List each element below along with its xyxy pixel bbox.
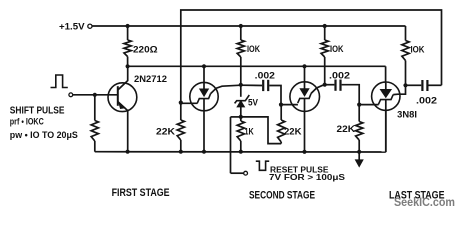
junction at 127.6,26 [126, 24, 130, 28]
svg-text:IOK: IOK [411, 45, 425, 55]
reset pulse symbol [256, 161, 269, 170]
junction at 359.2,151.8 [357, 150, 361, 154]
wire cap C2 right [342, 85, 360, 105]
wire input to base [73, 94, 118, 96]
wire R7 top [240, 117, 242, 121]
SCS Q3 anode-gate lead [311, 85, 325, 94]
svg-text:22K: 22K [156, 127, 176, 137]
wire R6 top [180, 103, 182, 120]
wire 10K R2 top [240, 26, 242, 40]
wire 10K R4 bottom [405, 61, 407, 86]
junction at 204,151.7 [202, 150, 206, 154]
wire R8 top [280, 105, 282, 120]
SCS Q2 zener bar [197, 94, 210, 104]
junction at 324.7,84.7 [323, 83, 327, 87]
junction at 359.2,104.6 [357, 103, 361, 107]
wire zener top [240, 85, 242, 97]
SCS Q2 body circle [190, 82, 218, 110]
resistor R6 22K first stage [177, 120, 184, 140]
SCS Q4 triangle [380, 89, 391, 97]
wire reset riser [230, 117, 232, 173]
svg-text:SHIFT PULSE: SHIFT PULSE [10, 105, 65, 116]
transistor Q1 base bar [117, 86, 119, 106]
wire 10K R4 top [405, 26, 407, 41]
junction at 180.8,102.6 [179, 101, 183, 105]
transistor Q1 emitter lead [118, 102, 128, 152]
wire 1K node to R8 bottom [241, 117, 281, 144]
junction at 281,104.6 [279, 103, 283, 107]
wire reset node horizontal [231, 116, 241, 118]
svg-text:7V FOR > 100μS: 7V FOR > 100μS [269, 172, 345, 182]
resistor R2 10K [237, 40, 244, 57]
svg-text:5V: 5V [248, 98, 258, 108]
wire R5 bottom [94, 141, 96, 152]
svg-text:220Ω: 220Ω [133, 44, 158, 54]
SCS Q3 cathode wire [304, 98, 306, 151]
input terminal [69, 93, 73, 97]
wire top feedback bus [181, 10, 442, 103]
svg-text:22K: 22K [284, 126, 302, 136]
wire cap C1 right [269, 86, 281, 105]
wire zener bottom [240, 107, 242, 117]
svg-text:22K: 22K [337, 124, 356, 134]
resistor R3 10K [321, 40, 328, 57]
resistor R1 220ohm [124, 40, 131, 57]
SCS Q4 anode-gate lead [393, 85, 405, 94]
wire cap C1 left [241, 84, 262, 86]
wire anode bus drop to Q4 [385, 66, 387, 83]
wire SCS Q2 anode [203, 66, 205, 89]
svg-text:.002: .002 [416, 96, 437, 106]
capacitor C2 plates [334, 80, 336, 91]
svg-text:.002: .002 [329, 71, 350, 81]
junction at 127.6,66.3 [126, 64, 130, 68]
wire ground rail [95, 151, 386, 153]
wire R6 bottom [180, 140, 182, 152]
resistor R4 10K [402, 41, 409, 61]
svg-text:prf • IOKC: prf • IOKC [10, 117, 44, 127]
SCS Q3 body circle [290, 82, 320, 112]
svg-text:IOK: IOK [247, 44, 260, 54]
junction at 127.6,151.7 [126, 150, 130, 154]
junction at 240.8,26 [239, 24, 243, 28]
junction at 180.8,151.7 [179, 150, 183, 154]
svg-text:IOK: IOK [330, 44, 344, 54]
wire cap C3 right [429, 84, 442, 86]
zener CR1 triangle [237, 101, 245, 107]
SCS Q2 cathode-gate lead [181, 102, 198, 104]
zener CR1 bar [235, 95, 250, 103]
node +1.5V supply rail wire [92, 25, 406, 27]
shift pulse symbol [51, 75, 68, 88]
junction at 304.5,151.8 [302, 150, 306, 154]
junction at 304.5,66.3 [302, 64, 306, 68]
SCS Q3 zener bar [298, 93, 311, 103]
resistor R8 22K [278, 120, 285, 142]
wire R9 top [358, 105, 360, 122]
svg-text:SeekIC.com: SeekIC.com [394, 195, 455, 209]
junction at 94.8,94.8 [93, 93, 97, 97]
resistor R5 input [91, 121, 98, 142]
junction at 240.8,151.7 [239, 150, 243, 154]
wire reset stub [231, 172, 244, 174]
junction at 204,66.3 [202, 64, 206, 68]
power terminal +1.5V [88, 24, 92, 28]
junction at 405.5,85.3 [403, 83, 407, 87]
resistor R7 1K [237, 121, 244, 141]
wire 10K R2 bottom [240, 57, 242, 85]
junction at 240.8,116.9 [239, 115, 243, 119]
wire SCS Q3 anode [304, 66, 306, 88]
junction at 324.7,26 [323, 24, 327, 28]
svg-text:+1.5V: +1.5V [59, 22, 85, 32]
SCS Q4 cathode wire [385, 100, 387, 153]
SCS Q2 cathode wire [203, 99, 205, 152]
resistor R9 22K [356, 122, 363, 141]
reset terminal [244, 171, 248, 175]
capacitor C3 plates [421, 80, 423, 91]
wire R7 bottom [240, 141, 242, 152]
transistor Q1 2N2712 body [108, 83, 137, 112]
svg-text:3N8I: 3N8I [397, 109, 417, 119]
wire cap C3 left [406, 84, 422, 86]
wire R5 top [94, 95, 96, 121]
wire rail up to Q4 cathode [385, 110, 387, 152]
svg-text:.002: .002 [255, 70, 275, 80]
svg-text:FIRST STAGE: FIRST STAGE [112, 187, 170, 199]
junction at 240.8,84.8 [239, 83, 243, 87]
SCS Q2 anode-gate lead [211, 85, 241, 93]
SCS Q4 zener bar [378, 95, 393, 105]
svg-text:SECOND STAGE: SECOND STAGE [249, 189, 315, 201]
wire SCS Q4 anode into triangle [385, 83, 387, 89]
wire 10K R3 top [324, 26, 326, 40]
wire 220 ohm bottom [127, 57, 129, 67]
wire 10K R3 bottom [324, 57, 326, 85]
SCS Q2 triangle [200, 89, 209, 97]
transistor Q1 emitter arrow [119, 102, 126, 109]
wire 220 ohm top [127, 26, 129, 40]
SCS Q4 3N81 body circle [372, 82, 400, 110]
svg-text:2N2712: 2N2712 [134, 74, 167, 84]
wire R9 bottom [358, 140, 360, 152]
SCS Q3 triangle [300, 89, 309, 97]
capacitor C1 plates [262, 80, 264, 91]
wire cap C2 left [325, 84, 335, 86]
ground symbol arrow [358, 152, 360, 161]
transistor Q1 collector lead [118, 66, 128, 90]
wire anode bus [128, 65, 386, 67]
svg-text:pw • IO TO 20μS: pw • IO TO 20μS [10, 130, 78, 140]
wire R8 bottom [280, 142, 282, 144]
SCS Q4 cathode-gate lead [359, 104, 378, 106]
svg-text:1K: 1K [245, 127, 255, 137]
SCS Q3 cathode-gate lead [281, 104, 298, 106]
